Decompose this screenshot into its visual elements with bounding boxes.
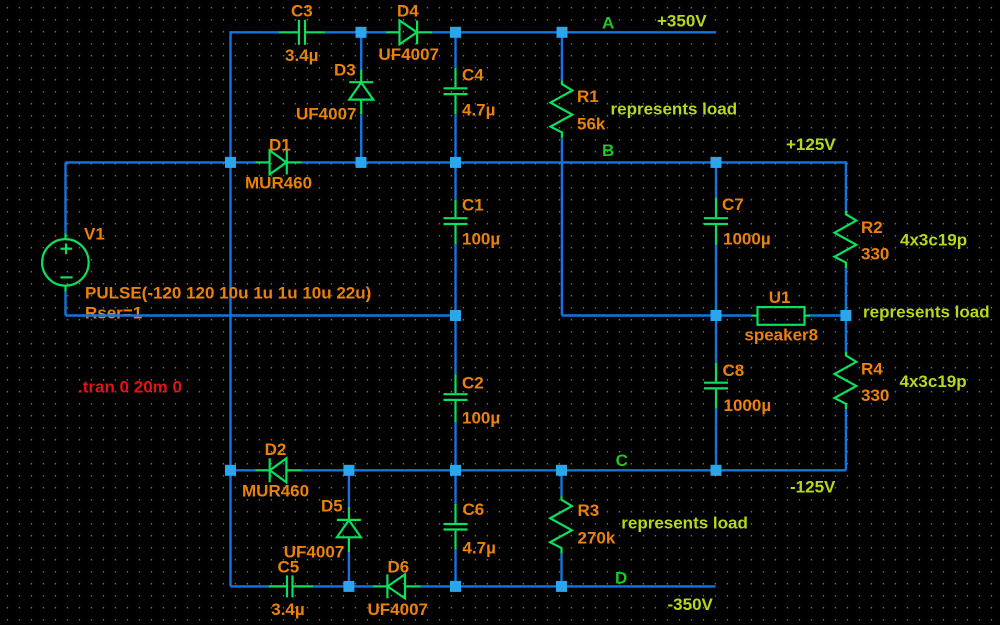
svg-text:+350V: +350V bbox=[657, 11, 707, 30]
svg-text:B: B bbox=[602, 141, 614, 160]
svg-text:speaker8: speaker8 bbox=[744, 325, 818, 344]
diode D3 bbox=[296, 32, 373, 162]
resistor R4 bbox=[835, 316, 890, 471]
svg-text:1000µ: 1000µ bbox=[723, 229, 771, 248]
svg-text:C2: C2 bbox=[462, 373, 484, 392]
svg-text:100µ: 100µ bbox=[462, 229, 500, 248]
wire top rail A row bbox=[231, 32, 279, 586]
svg-text:-350V: -350V bbox=[668, 595, 714, 614]
wire top rail segment D4 to +350V end bbox=[432, 31, 716, 33]
svg-text:D1: D1 bbox=[269, 135, 291, 154]
wire D row C5 to D5 bbox=[313, 585, 373, 587]
svg-text:C: C bbox=[616, 451, 628, 470]
spice directive .tran bbox=[78, 377, 182, 396]
svg-text:represents load: represents load bbox=[611, 99, 738, 118]
svg-text:+125V: +125V bbox=[786, 135, 836, 154]
wire D row D6 to -350V end bbox=[421, 585, 716, 587]
svg-text:V1: V1 bbox=[84, 224, 105, 243]
resistor R1 bbox=[551, 32, 606, 315]
node B bbox=[602, 141, 614, 160]
svg-text:4x3c19p: 4x3c19p bbox=[900, 231, 967, 250]
node D bbox=[615, 569, 627, 588]
svg-text:4x3c19p: 4x3c19p bbox=[900, 372, 967, 391]
svg-text:3.4µ: 3.4µ bbox=[271, 600, 304, 619]
junction B-D3 bbox=[356, 157, 367, 168]
svg-text:4.7µ: 4.7µ bbox=[463, 539, 496, 558]
svg-text:D3: D3 bbox=[334, 60, 356, 79]
svg-text:MUR460: MUR460 bbox=[242, 481, 309, 500]
svg-text:4.7µ: 4.7µ bbox=[462, 100, 495, 119]
svg-text:PULSE(-120 120 10u 1u 1u 10u 2: PULSE(-120 120 10u 1u 1u 10u 22u) bbox=[85, 283, 371, 302]
svg-text:UF4007: UF4007 bbox=[379, 45, 439, 64]
junction speaker-C1 bbox=[450, 310, 461, 321]
wire D row left bbox=[231, 585, 269, 587]
capacitor C6 bbox=[444, 470, 496, 586]
diode D4 bbox=[379, 1, 439, 64]
wire V1 bottom row bbox=[66, 314, 456, 316]
capacitor C4 bbox=[444, 32, 496, 162]
comment 4x3c19p (lower) bbox=[900, 372, 967, 391]
svg-text:C4: C4 bbox=[462, 65, 484, 84]
node +125V bbox=[786, 135, 836, 154]
junction speaker-C7 bbox=[711, 310, 722, 321]
svg-text:270k: 270k bbox=[578, 529, 616, 548]
junction C-C8 bbox=[711, 465, 722, 476]
wire speaker row from R1 bbox=[562, 314, 751, 316]
junction B-C1 bbox=[450, 157, 461, 168]
wire top rail segment C3 to D4 bbox=[325, 31, 386, 33]
junction top-C4 bbox=[450, 27, 461, 38]
svg-text:A: A bbox=[602, 13, 614, 32]
svg-text:UF4007: UF4007 bbox=[296, 104, 356, 123]
wire B row D1 to right corner bbox=[302, 162, 846, 210]
diode D5 bbox=[284, 470, 361, 586]
comment represents load (lower) bbox=[621, 514, 748, 533]
junction B-left bbox=[225, 157, 236, 168]
svg-text:.tran 0 20m 0: .tran 0 20m 0 bbox=[78, 377, 182, 396]
svg-text:MUR460: MUR460 bbox=[245, 173, 312, 192]
diode D1 bbox=[245, 135, 312, 192]
junction C-C6 bbox=[450, 465, 461, 476]
svg-text:R4: R4 bbox=[861, 359, 883, 378]
resistor R2 bbox=[835, 211, 890, 316]
svg-text:U1: U1 bbox=[769, 288, 791, 307]
svg-text:UF4007: UF4007 bbox=[368, 600, 428, 619]
comment represents load (upper) bbox=[611, 99, 738, 118]
comment represents load (right) bbox=[863, 302, 990, 321]
svg-text:C7: C7 bbox=[722, 195, 744, 214]
junction top-D3 bbox=[356, 27, 367, 38]
voltage source V1 bbox=[42, 162, 371, 322]
svg-text:R2: R2 bbox=[861, 218, 883, 237]
svg-text:D6: D6 bbox=[388, 557, 410, 576]
svg-text:3.4µ: 3.4µ bbox=[285, 46, 318, 65]
svg-text:R3: R3 bbox=[578, 501, 600, 520]
svg-text:represents load: represents load bbox=[863, 302, 990, 321]
wire speaker to right rail bbox=[810, 314, 846, 316]
node +350V bbox=[657, 11, 707, 30]
junction C-D5 bbox=[343, 465, 354, 476]
wire C row D2 to right corner bbox=[302, 469, 846, 471]
diode D6 bbox=[368, 557, 428, 619]
speaker U1 bbox=[744, 288, 818, 344]
svg-text:represents load: represents load bbox=[621, 514, 748, 533]
svg-text:C8: C8 bbox=[723, 361, 745, 380]
svg-text:D5: D5 bbox=[321, 496, 343, 515]
svg-text:-125V: -125V bbox=[790, 477, 836, 496]
capacitor C2 bbox=[444, 316, 501, 471]
svg-text:330: 330 bbox=[861, 244, 889, 263]
junction C-R3 bbox=[556, 465, 567, 476]
diode D2 bbox=[242, 440, 309, 501]
svg-text:D4: D4 bbox=[397, 1, 419, 20]
wire C row left bbox=[231, 469, 256, 471]
svg-text:C3: C3 bbox=[291, 1, 313, 20]
junction C-left bbox=[225, 465, 236, 476]
node -125V bbox=[790, 477, 836, 496]
junction D-D5 bbox=[343, 581, 354, 592]
capacitor C1 bbox=[444, 162, 501, 315]
capacitor C3 bbox=[279, 1, 325, 65]
junction D-C6 bbox=[450, 581, 461, 592]
svg-text:C6: C6 bbox=[463, 500, 485, 519]
capacitor C7 bbox=[704, 162, 771, 315]
svg-text:56k: 56k bbox=[577, 114, 606, 133]
node A bbox=[602, 13, 614, 32]
comment 4x3c19p (upper) bbox=[900, 231, 967, 250]
node -350V bbox=[668, 595, 714, 614]
resistor R3 bbox=[550, 470, 616, 586]
node C bbox=[616, 451, 628, 470]
svg-text:C1: C1 bbox=[462, 195, 484, 214]
capacitor C8 bbox=[704, 316, 771, 471]
junction speaker-right bbox=[840, 310, 851, 321]
junction top-R1 bbox=[557, 27, 568, 38]
svg-text:Rser=1: Rser=1 bbox=[85, 303, 142, 322]
svg-text:D: D bbox=[615, 569, 627, 588]
wire B row left bbox=[66, 161, 256, 163]
capacitor C5 bbox=[269, 557, 313, 619]
svg-text:R1: R1 bbox=[577, 87, 599, 106]
svg-text:1000µ: 1000µ bbox=[724, 396, 772, 415]
junction D-R3 bbox=[556, 581, 567, 592]
svg-text:100µ: 100µ bbox=[462, 408, 500, 427]
junction B-C7 bbox=[711, 157, 722, 168]
svg-text:C5: C5 bbox=[278, 557, 300, 576]
svg-text:330: 330 bbox=[861, 386, 889, 405]
svg-text:D2: D2 bbox=[265, 440, 287, 459]
